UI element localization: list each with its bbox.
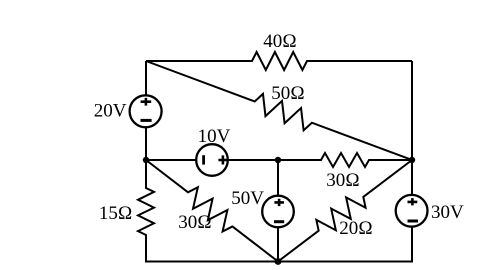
node junction left (A) bbox=[143, 157, 149, 163]
wire TL to 20V source bbox=[145, 61, 147, 96]
voltage source 20V bbox=[130, 95, 162, 127]
resistor 30&#937; with diagonal wire left node to bottom node bbox=[140, 152, 284, 269]
svg-text:30Ω: 30Ω bbox=[326, 170, 360, 191]
svg-text:20Ω: 20Ω bbox=[339, 218, 373, 239]
resistor 15&#937; with left wire bbox=[138, 160, 154, 262]
voltage source 50V bbox=[262, 196, 294, 228]
wire 20V source to left node bbox=[145, 128, 147, 161]
wire bottom BL to BR bbox=[145, 261, 413, 263]
resistor 20&#937; with diagonal wire bottom node to right node bbox=[272, 152, 418, 269]
resistor 30&#937; with middle wire to right node bbox=[229, 153, 413, 167]
voltage source 10V bbox=[196, 144, 228, 176]
svg-text:15Ω: 15Ω bbox=[99, 203, 133, 224]
svg-text:20V: 20V bbox=[94, 101, 127, 122]
svg-text:30Ω: 30Ω bbox=[178, 212, 212, 233]
wire left node to 10V source bbox=[146, 159, 196, 161]
svg-text:40Ω: 40Ω bbox=[263, 31, 297, 52]
wire center node to 50V source bbox=[277, 160, 279, 196]
svg-text:30V: 30V bbox=[431, 202, 464, 223]
node junction center top of 50V branch bbox=[275, 157, 281, 163]
resistor 50&#937; with diagonal wire TL to right node bbox=[143, 52, 416, 170]
resistor R 40&#937; with top wire bbox=[146, 52, 412, 70]
wire right node to 30V source bbox=[411, 160, 413, 195]
wire 50V source to bottom node bbox=[277, 227, 279, 261]
voltage source 30V bbox=[396, 195, 428, 227]
wire top-right corner down to right node bbox=[411, 61, 413, 160]
wire 30V source to bottom-right corner bbox=[411, 227, 413, 262]
node junction right bbox=[409, 157, 415, 163]
svg-text:50V: 50V bbox=[231, 188, 264, 209]
node junction bottom center bbox=[275, 258, 282, 265]
svg-text:50Ω: 50Ω bbox=[271, 83, 305, 104]
svg-text:10V: 10V bbox=[198, 126, 231, 147]
